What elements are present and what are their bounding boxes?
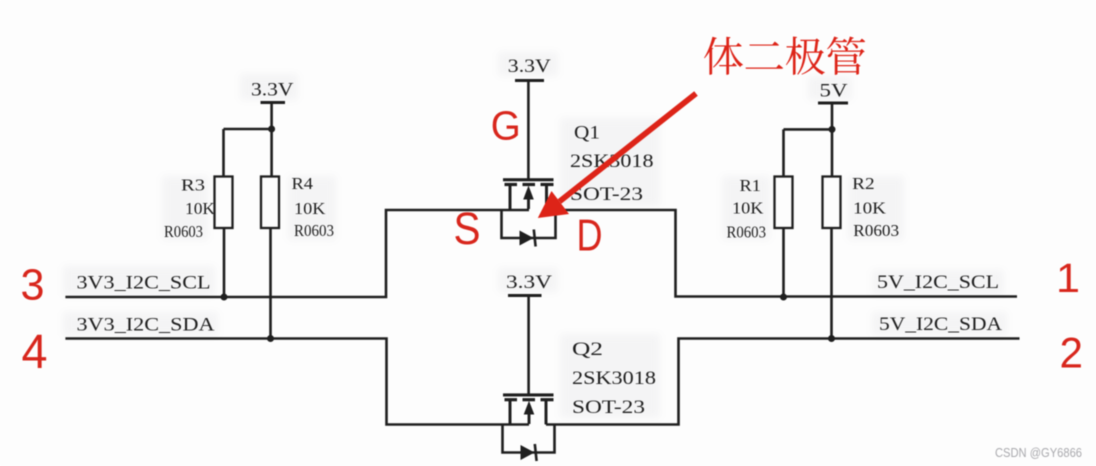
svg-text:3.3V: 3.3V (506, 272, 553, 293)
svg-text:R1: R1 (740, 176, 762, 195)
svg-text:3: 3 (21, 261, 45, 310)
svg-text:R2: R2 (852, 174, 875, 193)
svg-text:10K: 10K (294, 199, 326, 218)
svg-text:CSDN @GY6866: CSDN @GY6866 (995, 446, 1082, 460)
svg-text:10K: 10K (185, 199, 216, 218)
svg-text:Q1: Q1 (574, 123, 600, 144)
svg-text:3.3V: 3.3V (251, 80, 294, 101)
svg-text:4: 4 (22, 326, 48, 379)
svg-text:3V3_I2C_SCL: 3V3_I2C_SCL (77, 274, 211, 294)
svg-text:2SK3018: 2SK3018 (572, 368, 656, 389)
svg-text:5V_I2C_SDA: 5V_I2C_SDA (879, 315, 1003, 335)
svg-text:R4: R4 (292, 174, 314, 193)
svg-text:10K: 10K (853, 199, 887, 218)
svg-text:R0603: R0603 (294, 221, 334, 240)
svg-text:3.3V: 3.3V (508, 56, 551, 77)
svg-text:2: 2 (1060, 330, 1084, 378)
svg-text:SOT-23: SOT-23 (572, 397, 645, 418)
svg-text:D: D (577, 212, 603, 261)
svg-text:S: S (454, 203, 481, 254)
svg-text:3V3_I2C_SDA: 3V3_I2C_SDA (77, 316, 216, 336)
svg-text:5V: 5V (820, 81, 849, 102)
svg-text:R0603: R0603 (853, 221, 899, 240)
svg-text:Q2: Q2 (572, 339, 603, 360)
svg-text:5V_I2C_SCL: 5V_I2C_SCL (877, 273, 999, 293)
svg-text:1: 1 (1056, 255, 1080, 301)
svg-text:10K: 10K (732, 199, 764, 218)
svg-text:R0603: R0603 (164, 222, 203, 241)
svg-text:R0603: R0603 (727, 223, 767, 242)
svg-text:R3: R3 (181, 176, 205, 195)
svg-text:G: G (491, 103, 521, 149)
